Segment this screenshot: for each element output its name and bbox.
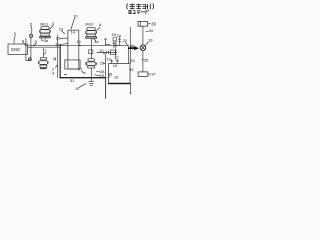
svg-text:ENG: ENG xyxy=(11,47,20,52)
thick shaft 60.2 xyxy=(59,45,61,78)
svg-text:32: 32 xyxy=(129,67,133,72)
label 27 leader xyxy=(82,71,86,73)
svg-text:31: 31 xyxy=(70,78,74,83)
rail ticks xyxy=(106,51,108,54)
svg-text:MG1: MG1 xyxy=(40,23,48,27)
inner box 25? xyxy=(65,60,80,69)
small box on rail xyxy=(110,50,115,55)
title text 実施例1 (pseudo-glyph strokes) xyxy=(127,4,154,9)
label 30 leader xyxy=(148,23,150,25)
label 22 leader xyxy=(126,42,128,45)
reference numerals xyxy=(14,14,157,91)
bold power arrow 83 xyxy=(129,47,135,49)
svg-text:17: 17 xyxy=(115,55,119,60)
MG2 side brackets xyxy=(86,31,97,34)
MG1 side brackets xyxy=(40,30,51,33)
vertical line from title xyxy=(129,27,131,63)
pump side marks xyxy=(54,58,56,61)
label 37 leader xyxy=(148,73,150,75)
svg-text:15: 15 xyxy=(76,39,80,44)
lower pulley dot xyxy=(29,58,32,61)
oil pump motor symbol xyxy=(39,57,48,68)
label 3a leader xyxy=(44,37,46,39)
wheel column upper xyxy=(142,26,144,45)
battery unit box 36 xyxy=(109,63,130,83)
svg-text:21: 21 xyxy=(117,33,121,38)
tick below box xyxy=(64,73,66,75)
svg-text:13: 13 xyxy=(59,27,63,32)
lower shaft line xyxy=(31,46,60,48)
gearbox tall box 14 xyxy=(68,30,79,69)
rail corner down xyxy=(127,46,129,64)
svg-text:37: 37 xyxy=(151,72,155,77)
lower bus line xyxy=(105,55,107,78)
shaft line 57.7 xyxy=(57,35,59,77)
label 25 leader xyxy=(104,62,106,64)
label 1 leader xyxy=(14,36,15,44)
svg-text:18: 18 xyxy=(112,32,116,37)
wheel column lower xyxy=(142,50,144,72)
inverter 21 symbol xyxy=(119,36,121,46)
svg-text:16: 16 xyxy=(113,63,117,68)
charger box 30 xyxy=(138,21,148,26)
svg-text:35: 35 xyxy=(144,57,148,62)
motor-generator MG1 symbol xyxy=(40,27,51,38)
svg-text:30: 30 xyxy=(151,22,156,27)
junction T xyxy=(104,39,110,45)
link line xyxy=(115,48,117,60)
label 7 leader xyxy=(44,53,46,55)
svg-text:25: 25 xyxy=(100,61,104,66)
bottom rail xyxy=(60,77,105,79)
label 4a leader xyxy=(94,39,96,41)
svg-text:22: 22 xyxy=(123,38,127,43)
label 32 leader xyxy=(130,68,131,71)
label 20 leader xyxy=(103,53,105,54)
belt line left xyxy=(26,39,29,61)
output stub under box36 xyxy=(130,84,132,94)
capacitor ticks xyxy=(111,60,119,64)
label 35 leader xyxy=(142,59,144,61)
clutch tick 12 xyxy=(60,37,68,39)
title text 第2モード (pseudo-glyph strokes) xyxy=(128,10,148,14)
motor-generator MG2 symbol xyxy=(86,28,97,39)
svg-text:32: 32 xyxy=(114,75,118,80)
label 28 leader xyxy=(96,70,100,73)
pulley 2 xyxy=(29,34,32,37)
compressor side brackets xyxy=(86,62,97,65)
label 2 leader xyxy=(30,27,33,34)
label 29 leader xyxy=(95,74,100,77)
svg-text:83: 83 xyxy=(130,45,134,49)
svg-text:33: 33 xyxy=(148,37,152,42)
main shaft rail xyxy=(26,45,128,47)
label 3 leader xyxy=(50,26,53,29)
svg-text:12: 12 xyxy=(56,36,60,41)
wheel symbol 33 xyxy=(140,45,146,51)
label 15 leader xyxy=(79,44,81,46)
label 24 leader xyxy=(55,65,57,68)
label 10 leader xyxy=(71,18,75,29)
label 13 leader xyxy=(62,31,65,34)
svg-text:36: 36 xyxy=(108,72,112,77)
label 6 leader xyxy=(33,44,35,46)
inverter 18 symbol xyxy=(113,38,117,41)
label 34 leader xyxy=(146,30,148,32)
svg-text:19: 19 xyxy=(106,56,110,61)
label 33 leader xyxy=(146,42,149,45)
svg-text:7: 7 xyxy=(45,48,47,53)
clutch tick 11 xyxy=(59,44,68,45)
engine output shaft xyxy=(28,46,32,48)
svg-text:24: 24 xyxy=(75,87,79,91)
label 4 leader xyxy=(97,28,100,31)
label 36 leader xyxy=(108,76,110,78)
MG2 shaft xyxy=(90,38,92,58)
MG1 shaft to pump xyxy=(42,48,44,57)
svg-text:27: 27 xyxy=(78,67,82,72)
gear mark on MG2 shaft xyxy=(89,50,93,54)
belt line right xyxy=(30,38,32,58)
compressor motor symbol xyxy=(87,59,96,68)
ground symbol xyxy=(89,68,94,85)
counter rail xyxy=(97,51,117,53)
svg-text:MG2: MG2 xyxy=(85,23,93,27)
MG1 shaft bracket xyxy=(41,38,43,40)
svg-text:29: 29 xyxy=(100,73,104,78)
sensor box 37 xyxy=(138,72,148,77)
label 24b leader xyxy=(79,84,86,88)
svg-text:11: 11 xyxy=(55,41,59,46)
pump side brackets xyxy=(38,61,48,63)
svg-text:23: 23 xyxy=(130,58,134,63)
engine ENG box xyxy=(8,44,28,55)
label 5 leader xyxy=(24,43,26,45)
